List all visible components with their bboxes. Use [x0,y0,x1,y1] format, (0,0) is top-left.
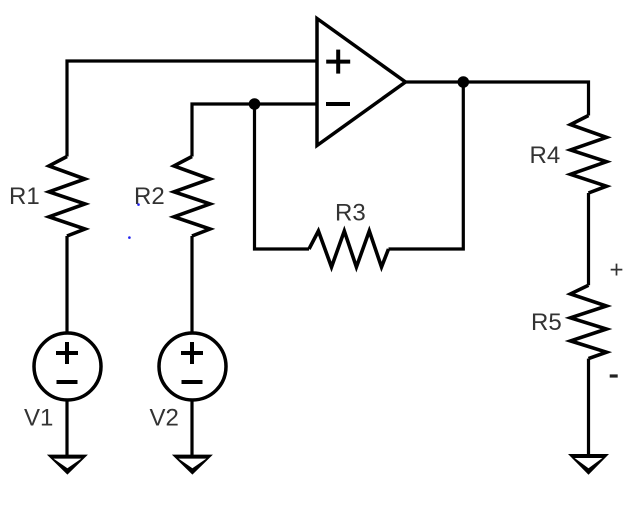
minus polarity label near R5 [610,374,618,377]
resistor R2 [174,157,210,237]
svg-text:V2: V2 [150,405,179,432]
ground under V2 [172,455,213,475]
V1 plus marking [56,342,78,364]
wire R5 bottom to ground [587,359,590,456]
svg-text:R3: R3 [335,200,366,227]
resistor R4 [571,116,607,194]
stray blue dot 1 [137,203,140,206]
ground under V1 [47,455,88,475]
svg-text:+: + [610,257,624,284]
resistor R3 [309,231,389,267]
wire V1 bottom to ground [65,399,68,456]
V1 minus marking [57,380,78,384]
V2 plus marking [181,342,203,364]
op-amp U1 [317,19,406,146]
resistor R1 [49,157,85,237]
wire R2 bottom to V2 top [190,236,193,334]
op-amp - input marking [326,102,350,106]
svg-text:R1: R1 [9,183,40,210]
V2 minus marking [182,380,203,384]
op-amp + input marking [326,50,350,74]
voltage source V1 [34,333,101,400]
wire V2 bottom to ground [190,399,193,456]
wire R4 bottom to R5 top [587,193,590,285]
stray blue dot 2 [128,236,131,239]
svg-text:R2: R2 [134,183,165,210]
svg-text:R4: R4 [530,142,561,169]
svg-text:V1: V1 [24,405,53,432]
wire from R2 top to op-amp - input [192,104,317,157]
junction dot at inverting input node [249,98,261,110]
feedback wire left: node to R3 [255,104,310,249]
junction dot at output node [458,76,470,88]
feedback wire right: R3 to output [389,82,464,249]
svg-text:R5: R5 [531,309,562,336]
wire R1 bottom to V1 top [65,236,68,334]
ground under R5 [568,454,609,475]
resistor R5 [571,285,607,358]
wire from R1 top to op-amp + input [67,61,317,157]
output wire: op-amp to R4 [406,82,589,116]
voltage source V2 [159,333,226,400]
